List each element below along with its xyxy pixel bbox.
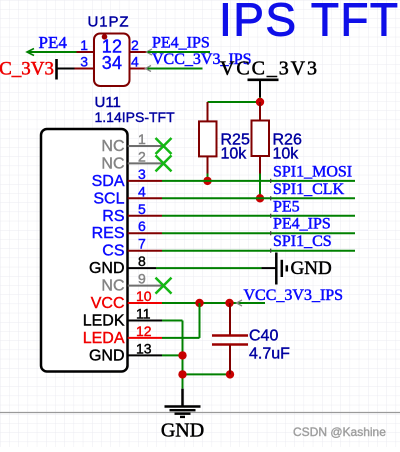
svg-text:GND: GND	[89, 347, 125, 364]
svg-text:SDA: SDA	[92, 173, 125, 190]
svg-text:VCC_3V3: VCC_3V3	[0, 59, 54, 80]
node junction pin13	[178, 351, 186, 359]
svg-text:4: 4	[138, 183, 146, 199]
svg-text:PE4: PE4	[39, 33, 68, 52]
connector U1PZ	[94, 34, 130, 87]
no-connect X pin 1	[156, 138, 172, 154]
svg-text:4: 4	[112, 53, 122, 73]
pin 13 GND	[89, 340, 162, 364]
svg-text:SCL: SCL	[93, 190, 124, 207]
svg-text:VCC_3V3_IPS: VCC_3V3_IPS	[244, 287, 344, 304]
pin 1 NC	[101, 131, 162, 155]
capacitor C40	[212, 303, 290, 374]
svg-text:5: 5	[138, 201, 146, 217]
node junction pin10/C40	[225, 299, 233, 307]
svg-text:NC: NC	[101, 155, 124, 172]
IC U11 body	[41, 129, 128, 372]
svg-text:4: 4	[131, 54, 139, 70]
wire PE4_IPS	[162, 232, 355, 234]
pin 3 SDA	[92, 166, 162, 190]
no-connect X pin 2	[156, 155, 172, 171]
node junction R25 / SPI1_MOSI	[203, 177, 211, 185]
wire pin13	[162, 354, 183, 356]
svg-text:LEDK: LEDK	[83, 313, 125, 330]
wire PE5	[162, 215, 355, 217]
svg-text:VCC: VCC	[91, 295, 125, 312]
svg-text:1.14IPS-TFT: 1.14IPS-TFT	[95, 109, 176, 125]
svg-text:6: 6	[138, 218, 146, 234]
svg-text:2: 2	[138, 148, 146, 164]
svg-text:RS: RS	[102, 208, 124, 225]
node junction bottom-left	[178, 370, 186, 378]
wire PE4 to U1PZ pin 1	[27, 49, 34, 56]
svg-text:NC: NC	[101, 138, 124, 155]
svg-text:SPI1_MOSI: SPI1_MOSI	[273, 163, 352, 180]
wire SPI1_CLK	[162, 197, 355, 199]
pin 1 of U1PZ	[77, 51, 95, 53]
svg-text:10k: 10k	[221, 146, 248, 163]
svg-text:11: 11	[136, 306, 151, 322]
svg-text:12: 12	[136, 323, 152, 339]
pin 2 of U1PZ	[130, 51, 148, 53]
svg-text:C40: C40	[249, 328, 278, 345]
svg-text:4.7uF: 4.7uF	[249, 346, 290, 363]
pin 8 GND	[89, 253, 156, 277]
svg-text:PE4_IPS: PE4_IPS	[152, 35, 210, 52]
svg-text:RES: RES	[92, 225, 125, 242]
svg-text:1: 1	[80, 37, 88, 53]
sheet bottom border line	[0, 412, 400, 414]
pin 12 LEDA	[83, 323, 162, 347]
wire SPI1_CS	[162, 250, 355, 252]
pin 5 RS	[102, 201, 162, 225]
svg-text:2: 2	[131, 37, 139, 53]
svg-text:10: 10	[136, 288, 152, 304]
svg-text:PE4_IPS: PE4_IPS	[273, 216, 331, 233]
svg-text:7: 7	[138, 236, 146, 252]
svg-text:LEDA: LEDA	[83, 330, 125, 347]
svg-text:GND: GND	[89, 260, 125, 277]
svg-text:9: 9	[138, 271, 146, 287]
node junction pin10/pin12	[195, 299, 203, 307]
svg-text:10k: 10k	[273, 146, 300, 163]
pin 4 SCL	[93, 183, 162, 207]
svg-text:3: 3	[138, 166, 146, 182]
svg-text:GND: GND	[161, 420, 204, 442]
wire pin11 to ground	[162, 320, 183, 322]
pin 6 RES	[92, 218, 162, 242]
svg-text:3: 3	[102, 53, 112, 73]
wire bottom link	[183, 373, 231, 375]
wire VCC_3V3_IPS	[162, 302, 265, 304]
svg-text:3: 3	[80, 54, 88, 70]
no-connect X pin 9	[156, 278, 172, 294]
resistor R25	[199, 102, 250, 181]
svg-text:8: 8	[138, 253, 146, 269]
node junction bottom-right / C40	[226, 370, 234, 378]
svg-text:CS: CS	[102, 243, 124, 260]
ground GND (earth, bottom)	[161, 389, 204, 442]
svg-text:1: 1	[138, 131, 146, 147]
wire PE4_IPS from pin 2	[147, 49, 153, 55]
wire VCC rail	[208, 101, 261, 103]
svg-text:U1PZ: U1PZ	[88, 14, 130, 31]
svg-text:NC: NC	[101, 278, 124, 295]
svg-text:CSDN @Kashine: CSDN @Kashine	[293, 425, 386, 439]
pin 10 VCC	[91, 288, 162, 312]
wire pin12 up to VCC net	[162, 337, 200, 339]
pin 7 CS	[102, 236, 162, 260]
node junction R26 / SPI1_CLK	[256, 194, 264, 202]
svg-text:PE5: PE5	[273, 198, 300, 215]
wire pin8 to GND	[156, 267, 261, 269]
wire VCC_3V3_IPS from pin 4	[146, 66, 152, 72]
pin 4 of U1PZ	[130, 68, 148, 70]
pin 9 NC	[101, 271, 162, 295]
svg-text:GND: GND	[291, 258, 332, 279]
svg-text:13: 13	[136, 340, 152, 356]
pin 2 NC	[101, 148, 162, 172]
pin 11 LEDK	[83, 306, 162, 330]
resistor R26	[252, 102, 302, 198]
svg-text:SPI1_CLK: SPI1_CLK	[273, 181, 345, 198]
ground GND (power, right)	[261, 253, 331, 285]
svg-text:SPI1_CS: SPI1_CS	[273, 233, 332, 250]
pin 3 of U1PZ	[75, 68, 95, 70]
wire SPI1_MOSI	[162, 180, 355, 182]
svg-text:IPS TFT: IPS TFT	[219, 0, 398, 46]
node junction at VCC rail	[256, 98, 264, 106]
